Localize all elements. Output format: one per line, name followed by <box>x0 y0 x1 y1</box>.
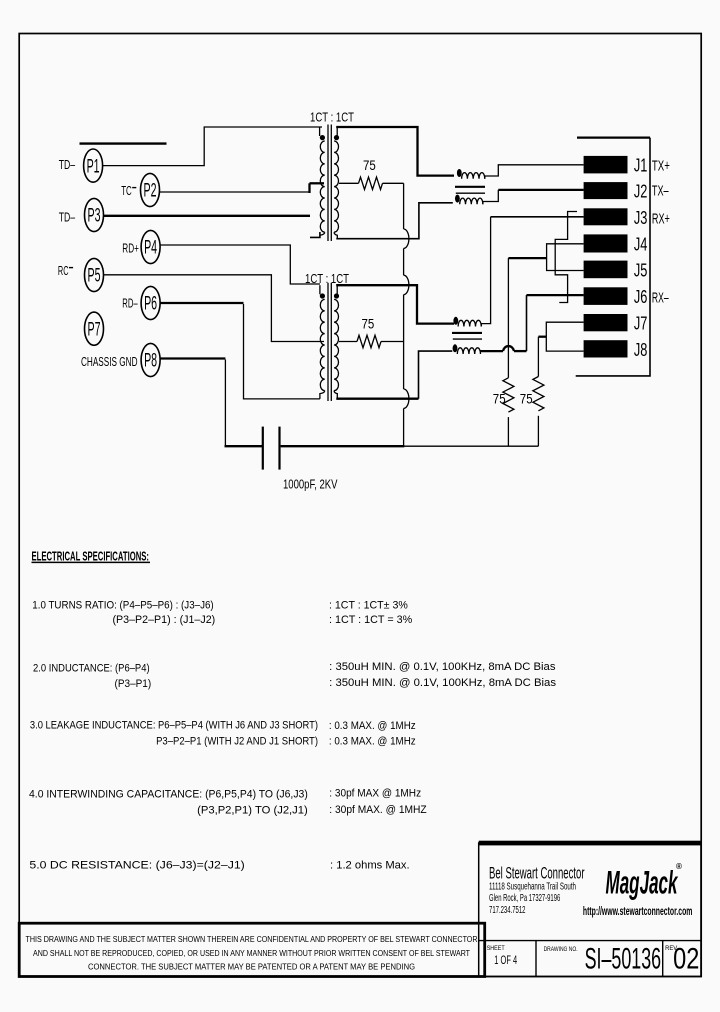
value label 75 (R1) <box>363 157 376 173</box>
svg-text:02: 02 <box>673 943 699 976</box>
polarity dot T1 secondary <box>334 135 339 140</box>
svg-text:J7: J7 <box>634 313 648 334</box>
svg-text:75: 75 <box>362 316 375 332</box>
net label TX- <box>652 184 669 200</box>
polarity dot T2 secondary <box>334 293 339 298</box>
company address lines <box>489 882 576 917</box>
svg-text:Glen Rock, Pa 17327-9196: Glen Rock, Pa 17327-9196 <box>489 893 561 904</box>
svg-text:1CT : 1CT: 1CT : 1CT <box>310 109 354 124</box>
node TD+ stub line <box>80 142 167 144</box>
svg-text:J1: J1 <box>634 155 648 176</box>
net label RD+ (P4) <box>122 241 139 256</box>
svg-text:Bel Stewart Connector: Bel Stewart Connector <box>489 864 585 882</box>
svg-text:P1: P1 <box>87 156 100 177</box>
connector bracket <box>576 138 650 376</box>
svg-text:AND SHALL NOT BE REPRODUCED, C: AND SHALL NOT BE REPRODUCED, COPIED, OR … <box>33 948 471 958</box>
net label RX+ <box>652 212 670 228</box>
wire T2 secondary bottom to choke L2 lower <box>336 351 452 399</box>
wire R3 bottom to cap wire <box>507 417 509 446</box>
transformer T2 label 1CT : 1CT <box>305 271 349 286</box>
svg-text:: 1CT : 1CT± 3%: : 1CT : 1CT± 3% <box>329 599 408 611</box>
drawing number SI-50136 <box>585 943 662 976</box>
svg-text:P3–P2–P1 (WITH J2 AND J1 SHORT: P3–P2–P1 (WITH J2 AND J1 SHORT) <box>156 736 318 748</box>
svg-text:RX+: RX+ <box>652 212 670 228</box>
wire termination node vertical with hops <box>404 183 409 446</box>
svg-text:http://www.stewartconnector.co: http://www.stewartconnector.com <box>583 906 693 918</box>
svg-text:P4: P4 <box>144 238 157 259</box>
value label 75 (R4) <box>520 391 533 407</box>
wire R4 bottom to cap wire <box>537 416 539 446</box>
choke L2 lower coil <box>453 344 481 354</box>
connector pad J5 <box>584 261 628 279</box>
wire choke L2 upper to J3 <box>491 216 584 218</box>
pin label J6 <box>634 286 648 307</box>
svg-text:: 1CT : 1CT = 3%: : 1CT : 1CT = 3% <box>329 614 412 626</box>
wire T1 secondary bottom to choke L1 lower <box>336 203 453 239</box>
svg-text:: 30pf MAX. @ 1MHZ: : 30pf MAX. @ 1MHZ <box>329 804 427 816</box>
wire T1 secondary top to choke L1 upper <box>336 127 454 176</box>
svg-text:75: 75 <box>363 157 376 173</box>
wire J7/J8 tie to resistor R4 <box>538 337 546 377</box>
wire choke L2 lower to J6 with hop <box>481 295 584 351</box>
MagJack logo <box>606 862 683 901</box>
pin label J4 <box>634 233 648 254</box>
svg-text:1CT : 1CT: 1CT : 1CT <box>305 271 349 286</box>
pin label J5 <box>634 259 648 280</box>
connector pad J3 <box>584 208 628 225</box>
capacitor C1 plates <box>263 427 280 470</box>
svg-text:TD–: TD– <box>59 209 76 224</box>
svg-text:TC: TC <box>121 183 132 198</box>
net label RX- <box>652 291 669 307</box>
wire T2 secondary center tap to resistor R2 <box>339 341 357 343</box>
pin P2 <box>141 173 160 206</box>
electrical specifications heading <box>32 548 151 563</box>
svg-text:CHASSIS GND: CHASSIS GND <box>81 355 138 369</box>
value label 1000pF 2KV (C1) <box>283 477 338 491</box>
net label TD- (P3) <box>59 209 76 224</box>
wire J7 J8 tie <box>546 322 583 351</box>
svg-text:SHEET: SHEET <box>487 945 505 952</box>
pin label J7 <box>634 313 648 334</box>
sheet label <box>487 945 505 952</box>
svg-text:SI–50136: SI–50136 <box>585 943 662 976</box>
value label 75 (R3) <box>493 391 506 407</box>
svg-text:®: ® <box>676 862 682 871</box>
wire P1 to T1 primary top <box>103 127 322 166</box>
svg-text:P2: P2 <box>144 181 157 202</box>
svg-text:5.0 DC RESISTANCE: (J6–J3)=(J: 5.0 DC RESISTANCE: (J6–J3)=(J2–J1) <box>29 859 244 871</box>
spec row 4.0 interwinding capacitance <box>29 787 427 816</box>
svg-text:TD–: TD– <box>59 157 76 172</box>
pin P6 <box>141 286 160 319</box>
transformer T1 label 1CT : 1CT <box>310 109 354 124</box>
svg-text:3.0 LEAKAGE INDUCTANCE: P6–: 3.0 LEAKAGE INDUCTANCE: P6–P5–P4 (WITH J… <box>30 720 318 732</box>
svg-text:2.0 INDUCTANCE: (P6–P4): 2.0 INDUCTANCE: (P6–P4) <box>33 662 150 674</box>
svg-text:: 1.2 ohms Max.: : 1.2 ohms Max. <box>330 859 410 871</box>
choke L2 core <box>452 333 482 339</box>
wire stub T1 primary bottom <box>310 232 320 237</box>
svg-text:P8: P8 <box>144 351 157 372</box>
pin P8 <box>141 343 160 376</box>
svg-text:1.0 TURNS RATIO: (P4–P5–P6) :: 1.0 TURNS RATIO: (P4–P5–P6) : (J3–J6) <box>32 599 213 611</box>
wire T1 secondary center tap to resistor R1 <box>339 182 359 184</box>
resistor R1 75 ohm <box>359 177 383 189</box>
pin label J2 <box>634 181 648 202</box>
choke L2 upper coil <box>453 217 490 327</box>
pin P3 <box>85 198 104 231</box>
pin label J1 <box>634 155 648 176</box>
connector pad J1 <box>584 156 628 174</box>
svg-text:P7: P7 <box>88 319 101 340</box>
svg-text:J3: J3 <box>634 207 648 228</box>
svg-text:75: 75 <box>520 391 533 407</box>
svg-text:1 OF 4: 1 OF 4 <box>494 953 517 967</box>
wire J4/J5 tie to resistor R3 <box>508 258 546 378</box>
svg-text:1000pF, 2KV: 1000pF, 2KV <box>283 477 338 491</box>
svg-text:TX+: TX+ <box>652 159 670 175</box>
net label TCT (P2) <box>121 183 136 198</box>
wire P6 to T2 primary bottom <box>160 303 320 399</box>
connector pad J4 <box>584 234 628 252</box>
wire P2 to T1 primary center tap <box>160 183 325 193</box>
svg-text:P5: P5 <box>88 266 101 287</box>
resistor R3 75 ohm <box>503 378 514 412</box>
spec row 2.0 inductance <box>33 661 557 690</box>
pin P4 <box>141 230 160 263</box>
transformer T2 core <box>328 283 331 401</box>
net label CHASSIS GND (P8) <box>81 355 138 369</box>
choke L1 core <box>455 187 485 193</box>
pin P1 <box>84 149 103 182</box>
transformer T2 primary winding <box>320 285 325 399</box>
transformer T2 secondary winding <box>334 285 338 399</box>
pin label J3 <box>634 207 648 228</box>
svg-text:P3: P3 <box>88 206 101 227</box>
wire C1 to termination bus <box>281 445 539 447</box>
svg-text:J5: J5 <box>634 259 648 280</box>
rev number 02 <box>673 943 699 976</box>
svg-text:717.234.7512: 717.234.7512 <box>489 905 526 916</box>
connector pad J8 <box>584 340 628 357</box>
transformer T1 secondary winding <box>334 127 338 239</box>
svg-text:11118 Susquehanna Trail South: 11118 Susquehanna Trail South <box>489 882 576 893</box>
svg-text:(P3,P2,P1) TO (J2,J1): (P3,P2,P1) TO (J2,J1) <box>197 805 308 817</box>
wire P4 to T2 primary top <box>160 245 320 284</box>
svg-text:J6: J6 <box>634 286 648 307</box>
svg-text:J4: J4 <box>634 233 648 254</box>
value label 75 (R2) <box>362 316 375 332</box>
title block frame <box>479 841 702 977</box>
pin P5 <box>85 258 104 291</box>
wire R1 to termination node <box>383 182 404 184</box>
connector pad J2 <box>584 182 628 199</box>
svg-text:4.0 INTERWINDING CAPACITANCE: 4.0 INTERWINDING CAPACITANCE: (P6,P5,P4)… <box>29 789 308 801</box>
company name Bel Stewart Connector <box>489 864 585 882</box>
resistor R4 75 ohm <box>533 377 544 411</box>
svg-text:THIS DRAWING AND THE SUBJECT M: THIS DRAWING AND THE SUBJECT MATTER SHOW… <box>26 934 478 944</box>
wire P3 toward T1 primary bottom <box>104 215 311 217</box>
website url <box>583 906 693 918</box>
net label TX+ <box>652 159 670 175</box>
net label TD- (P1) <box>59 157 76 172</box>
svg-text:: 350uH MIN. @ 0.1V, 100KHz, 8: : 350uH MIN. @ 0.1V, 100KHz, 8mA DC Bias <box>329 677 556 689</box>
svg-text:J8: J8 <box>634 339 648 360</box>
wire T2 secondary top to choke L2 upper <box>336 285 454 323</box>
svg-text:DRAWING NO.: DRAWING NO. <box>544 946 578 953</box>
wire P5 to T2 primary center tap <box>104 275 325 342</box>
pin label J8 <box>634 339 648 360</box>
svg-text:TX–: TX– <box>652 184 669 200</box>
svg-text:: 0.3 MAX. @ 1MHz: : 0.3 MAX. @ 1MHz <box>329 720 416 732</box>
svg-text:J2: J2 <box>634 181 648 202</box>
choke L1 lower coil <box>455 190 584 204</box>
drawing no label <box>544 946 578 953</box>
pin P7 <box>85 312 104 345</box>
svg-text:RD+: RD+ <box>122 241 139 256</box>
svg-text:(P3–P1): (P3–P1) <box>115 678 152 690</box>
svg-text:RX–: RX– <box>652 291 669 307</box>
svg-text:: 30pf MAX @ 1MHz: : 30pf MAX @ 1MHz <box>329 787 421 799</box>
choke L1 upper coil <box>457 165 584 179</box>
sheet number 1 of 4 <box>494 953 517 967</box>
disclaimer box <box>19 923 485 976</box>
spec row 1.0 turns ratio <box>32 599 412 626</box>
net label RCT (P5) <box>58 263 73 278</box>
polarity dot T1 primary <box>320 135 325 140</box>
resistor R2 75 ohm <box>357 335 381 347</box>
spec row 3.0 leakage inductance <box>30 720 416 748</box>
wire RX jog line J3 side <box>555 212 577 303</box>
svg-text:(P3–P2–P1) : (J1–J2): (P3–P2–P1) : (J1–J2) <box>113 614 216 626</box>
svg-text:ELECTRICAL SPECIFICATIONS:: ELECTRICAL SPECIFICATIONS: <box>32 548 150 563</box>
spec row 5.0 dc resistance <box>29 859 409 871</box>
svg-text:: 350uH MIN. @ 0.1V, 100KHz, 8: : 350uH MIN. @ 0.1V, 100KHz, 8mA DC Bias <box>329 661 556 673</box>
connector pad J6 <box>584 287 628 305</box>
polarity dot T2 primary <box>320 293 325 298</box>
svg-text:RD–: RD– <box>122 296 138 311</box>
transformer T1 primary winding <box>320 127 325 235</box>
connector pad J7 <box>584 314 628 331</box>
svg-text:P6: P6 <box>144 294 157 315</box>
wire R2 to termination node <box>381 341 404 343</box>
net label RD- (P6) <box>122 296 138 311</box>
svg-text:MagJack: MagJack <box>606 865 679 901</box>
svg-text:RC: RC <box>58 263 69 278</box>
svg-text:: 0.3 MAX. @ 1MHz: : 0.3 MAX. @ 1MHz <box>329 736 416 748</box>
rev label <box>665 945 678 952</box>
svg-text:75: 75 <box>493 391 506 407</box>
wire J4 J5 tie <box>547 244 584 271</box>
svg-text:CONNECTOR. THE SUBJECT MATTER: CONNECTOR. THE SUBJECT MATTER MAY BE PAT… <box>88 961 415 971</box>
transformer T1 core <box>328 125 331 242</box>
wire P8 to capacitor C1 <box>160 359 262 447</box>
